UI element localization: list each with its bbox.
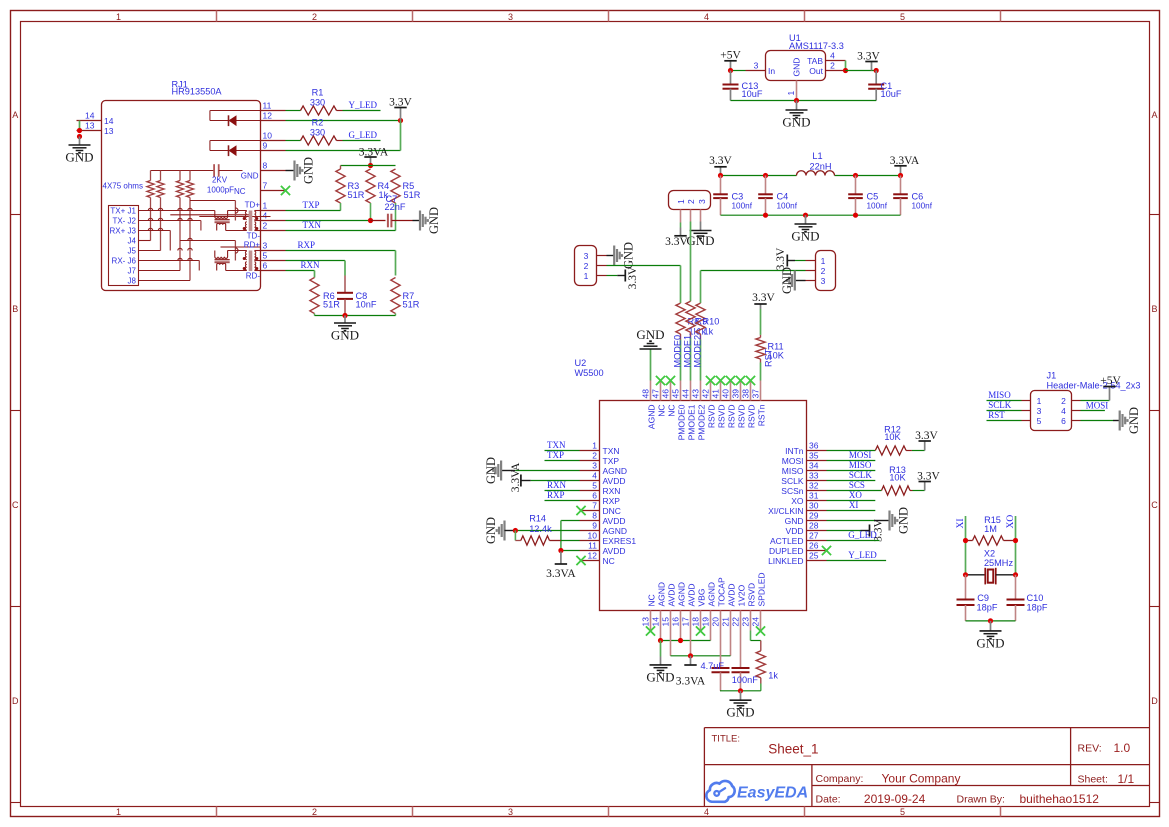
net label TXN — [303, 220, 322, 230]
svg-text:GND: GND — [65, 150, 93, 165]
ground GND below U1 — [782, 101, 810, 130]
net label TXP — [303, 200, 320, 210]
U2 pin 19 AGND — [701, 582, 717, 631]
ground GND at RJ1 pin 8 — [286, 157, 316, 184]
RJ1 pin 5 — [261, 251, 286, 261]
power flag +5V — [720, 50, 741, 71]
svg-text:J1: J1 — [1047, 371, 1057, 381]
svg-text:NC: NC — [234, 187, 246, 196]
svg-text:51R: 51R — [348, 190, 365, 200]
wire U2 pin11 AVDD — [561, 550, 580, 552]
no-connect X at U2 pin26 — [822, 546, 831, 555]
wire J8 row — [139, 280, 191, 282]
J1 pin digits — [1037, 396, 1067, 426]
svg-text:GND: GND — [976, 635, 1004, 650]
svg-text:3.3V: 3.3V — [665, 236, 688, 248]
power flag +5V at J1 — [1081, 375, 1122, 401]
title block Date row — [816, 792, 1100, 806]
svg-text:23: 23 — [741, 617, 751, 627]
svg-text:DUPLED: DUPLED — [769, 546, 803, 556]
net label RST at J1 — [988, 410, 1005, 420]
frame row letters — [12, 110, 1158, 706]
svg-text:VBG: VBG — [696, 589, 706, 607]
svg-text:2: 2 — [312, 807, 317, 817]
wire bottom avdd tie — [671, 655, 731, 657]
resistor R13 10K — [827, 465, 925, 495]
ground GND at U2 pin3 — [484, 457, 580, 484]
junction dot at R14 left — [513, 528, 518, 533]
svg-text:2: 2 — [592, 450, 597, 460]
svg-text:GND: GND — [427, 207, 441, 234]
svg-text:AGND: AGND — [603, 526, 628, 536]
U1 pin 3 In — [746, 60, 766, 70]
svg-text:MOSI: MOSI — [1086, 401, 1109, 411]
wire U2 pin19 down — [710, 631, 712, 641]
svg-text:4: 4 — [263, 211, 268, 221]
transformer T2 choke — [215, 250, 230, 270]
svg-text:35: 35 — [809, 450, 819, 460]
svg-text:MODE2: MODE2 — [693, 335, 703, 368]
U2 pin 16 AGND — [671, 582, 687, 631]
svg-text:NC: NC — [656, 405, 666, 417]
net label MISO at J1 — [988, 390, 1011, 400]
ground GND below C8 — [331, 316, 359, 343]
wire J5 row — [139, 250, 161, 252]
connector P2 1x3 top — [669, 191, 711, 210]
connector RJ1 HR913550A body — [102, 80, 261, 291]
wire U2 pin10 EXRES1 — [561, 540, 580, 542]
U2 pin 7 DNC — [580, 500, 621, 516]
svg-text:GND: GND — [780, 267, 794, 294]
svg-text:5: 5 — [263, 251, 268, 261]
svg-text:RXP: RXP — [603, 496, 621, 506]
junction dots at R15 — [963, 538, 1018, 543]
svg-text:GND: GND — [791, 229, 819, 244]
RJ1 inner jack box — [109, 206, 139, 286]
svg-text:2: 2 — [1061, 396, 1066, 406]
svg-text:C: C — [12, 500, 19, 510]
svg-text:SCLK: SCLK — [781, 476, 804, 486]
U2 pin 17 AVDD — [681, 584, 697, 631]
svg-text:3.3V: 3.3V — [627, 266, 639, 289]
svg-text:4: 4 — [704, 807, 709, 817]
RJ1 NC pin7 internal label — [234, 187, 246, 196]
svg-text:J4: J4 — [128, 237, 137, 246]
RJ1 TD+ label — [245, 201, 261, 210]
svg-text:40: 40 — [721, 389, 731, 399]
wire RXN to C8 — [286, 261, 346, 293]
svg-text:U2: U2 — [575, 358, 587, 368]
svg-text:TD+: TD+ — [245, 201, 261, 210]
svg-text:13: 13 — [641, 617, 651, 627]
resistor R12 10K — [827, 425, 925, 455]
svg-text:GND: GND — [646, 669, 674, 684]
svg-text:RST: RST — [988, 410, 1005, 420]
capacitor 2KV 1000pF — [151, 164, 243, 194]
junction dot at C1 — [874, 68, 879, 73]
svg-text:3: 3 — [697, 199, 707, 204]
RJ1 internal LED top — [210, 111, 261, 127]
power flag 3.3V at LED rail — [389, 96, 412, 120]
svg-text:100nf: 100nf — [777, 202, 798, 211]
svg-text:15: 15 — [661, 617, 671, 627]
U2 pin 31 XO — [791, 490, 826, 506]
svg-text:RD-: RD- — [246, 271, 261, 280]
no-connect X marks U2 top — [656, 376, 755, 385]
wire 3.3VA rail — [341, 165, 396, 167]
power flag 3.3VA at termination — [359, 146, 389, 165]
ground GND at J1 pin6 — [1081, 407, 1141, 434]
svg-text:31: 31 — [809, 490, 819, 500]
junction dots filter top — [718, 173, 903, 178]
capacitor C1 10uF — [868, 71, 902, 101]
svg-text:TOCAP: TOCAP — [716, 577, 726, 606]
RJ1 termination resistor column 3 — [176, 171, 183, 271]
svg-text:4X75 ohms: 4X75 ohms — [103, 182, 143, 191]
svg-text:XO: XO — [791, 496, 804, 506]
U2 pin 20 TOCAP — [711, 577, 727, 630]
wire MOSI at J1 — [1081, 410, 1105, 412]
svg-text:Sheet:: Sheet: — [1078, 774, 1108, 786]
svg-text:ACTLED: ACTLED — [770, 536, 804, 546]
capacitor C6 100nf — [893, 176, 933, 216]
svg-text:21: 21 — [721, 617, 731, 627]
svg-text:4.7uF: 4.7uF — [701, 661, 725, 671]
U2 pin 41 RSVD — [711, 381, 727, 429]
svg-text:J5: J5 — [128, 247, 137, 256]
U2 pin 35 MOSI — [782, 450, 827, 466]
junction dots at RJ1 gnd — [77, 128, 82, 139]
svg-text:MISO: MISO — [988, 390, 1011, 400]
svg-text:2: 2 — [584, 261, 589, 271]
svg-text:51R: 51R — [404, 190, 421, 200]
svg-text:22: 22 — [731, 617, 741, 627]
U2 pin 15 AVDD — [661, 584, 677, 631]
U2 pin 4 AVDD — [580, 470, 626, 486]
title block REV — [1078, 741, 1131, 755]
svg-text:J8: J8 — [128, 277, 137, 286]
svg-text:AGND: AGND — [603, 466, 628, 476]
RJ1 pin 11 — [261, 101, 286, 111]
svg-text:36: 36 — [809, 440, 819, 450]
svg-text:12: 12 — [588, 550, 598, 560]
transformer T1 isolation — [226, 211, 261, 232]
svg-text:C3: C3 — [732, 192, 744, 202]
svg-text:Header-Male-2.54_2x3: Header-Male-2.54_2x3 — [1047, 381, 1141, 391]
svg-text:B: B — [1151, 304, 1157, 314]
svg-text:GND: GND — [302, 157, 316, 184]
net label TXN at U2 — [547, 440, 566, 450]
svg-text:G_LED: G_LED — [349, 130, 378, 140]
wire MISO to J1 — [987, 400, 1022, 402]
U2 pin 8 AVDD — [580, 510, 626, 526]
U2 pin 34 MISO — [782, 460, 827, 476]
svg-text:10: 10 — [263, 131, 273, 141]
ground GND at U2 pin29 — [827, 507, 911, 534]
svg-text:3.3V: 3.3V — [857, 51, 880, 63]
svg-text:GND: GND — [484, 517, 498, 544]
net label RST at R11 — [764, 348, 774, 367]
svg-text:14: 14 — [104, 116, 114, 126]
svg-text:R1: R1 — [312, 88, 324, 98]
svg-text:1k: 1k — [704, 327, 714, 337]
U2 pin 27 ACTLED — [770, 530, 827, 546]
wire XO column — [1015, 516, 1017, 575]
RJ1 pin 6 — [261, 261, 286, 271]
svg-text:X2: X2 — [984, 548, 995, 558]
svg-text:EasyEDA: EasyEDA — [737, 785, 808, 802]
ic U2 W5500 body — [575, 358, 807, 611]
net label XO vertical — [1006, 515, 1016, 529]
svg-text:GND: GND — [792, 58, 802, 77]
svg-text:3: 3 — [508, 12, 513, 22]
svg-text:1: 1 — [584, 271, 589, 281]
U2 pin 44 PMODE1 — [681, 381, 697, 441]
wire Y_LED — [827, 560, 887, 562]
wire pin6 to R6 — [286, 271, 315, 278]
svg-text:AVDD: AVDD — [726, 584, 736, 607]
net label Y_LED — [349, 100, 378, 110]
net label RXN at U2 — [547, 480, 567, 490]
svg-text:RSVD: RSVD — [706, 405, 716, 429]
svg-text:18: 18 — [691, 617, 701, 627]
RJ1 termination resistor column 4 — [186, 171, 193, 281]
U1 pin 2 Out — [826, 60, 846, 70]
svg-text:RXN: RXN — [547, 480, 567, 490]
wire TAB to Out — [845, 61, 847, 71]
svg-text:24: 24 — [751, 617, 761, 627]
RJ1 pin 2 — [261, 221, 286, 231]
power flag 3.3V at R11 — [752, 292, 775, 309]
svg-text:2: 2 — [263, 221, 268, 231]
U2 pin 47 NC — [651, 381, 667, 417]
wire SCLK — [827, 480, 876, 482]
crystal X2 25MHz — [966, 548, 1016, 584]
power flag 3.3V at P1 pin1 — [607, 266, 640, 289]
RJ1 TD- label — [247, 231, 261, 240]
svg-text:45: 45 — [671, 389, 681, 399]
svg-text:10K: 10K — [884, 432, 901, 442]
U2 pin 38 RSVD — [741, 381, 757, 429]
svg-text:C5: C5 — [867, 192, 879, 202]
svg-text:Y_LED: Y_LED — [848, 550, 877, 560]
svg-text:9: 9 — [592, 520, 597, 530]
svg-text:GND: GND — [782, 115, 810, 130]
svg-text:3: 3 — [263, 241, 268, 251]
RJ1 pin 10 — [261, 131, 286, 141]
RJ1 termination resistor column 1 — [147, 171, 154, 241]
svg-text:RSVD: RSVD — [716, 405, 726, 429]
svg-text:48: 48 — [641, 389, 651, 399]
wire T1 center tap — [190, 201, 235, 248]
EasyEDA logo — [706, 781, 808, 802]
U2 pin 6 RXP — [580, 490, 621, 506]
svg-text:RXP: RXP — [547, 490, 565, 500]
svg-text:3.3V: 3.3V — [917, 470, 940, 482]
svg-text:SCLK: SCLK — [988, 400, 1012, 410]
U2 pin 32 SCSn — [781, 480, 826, 496]
capacitor C13 10uF — [723, 71, 763, 101]
svg-text:5: 5 — [900, 12, 905, 22]
wire TXP stub — [545, 460, 580, 462]
svg-text:AGND: AGND — [646, 405, 656, 430]
svg-text:5: 5 — [592, 480, 597, 490]
svg-text:C6: C6 — [912, 192, 924, 202]
svg-text:1: 1 — [786, 91, 796, 96]
wire J4 row — [139, 240, 151, 242]
svg-text:38: 38 — [741, 389, 751, 399]
svg-text:R10: R10 — [703, 317, 720, 327]
net label Y_LED at U2 — [848, 550, 877, 560]
net label SCS — [849, 480, 865, 490]
wire U2 pin9 AGND — [515, 530, 579, 532]
svg-text:10uF: 10uF — [881, 89, 902, 99]
no-connect X at U2 pin12 — [576, 556, 585, 565]
power flag 3.3V at R13 — [917, 470, 940, 490]
connector J1 Header-Male-2.54_2x3 — [1031, 371, 1141, 431]
junction dot at U1 out — [843, 68, 848, 73]
wire T2 center tap — [180, 241, 261, 261]
svg-text:MODE0: MODE0 — [673, 335, 683, 368]
svg-text:9: 9 — [263, 141, 268, 151]
svg-text:22nF: 22nF — [385, 202, 406, 212]
svg-text:18pF: 18pF — [1027, 603, 1048, 613]
svg-text:7: 7 — [592, 500, 597, 510]
power flag 3.3V at U2 pin28 — [827, 518, 885, 541]
wire J1 row — [139, 210, 215, 212]
svg-text:8: 8 — [263, 161, 268, 171]
svg-text:LINKLED: LINKLED — [768, 556, 803, 566]
net label G_LED — [349, 130, 378, 140]
net label RXP — [298, 240, 316, 250]
svg-text:AVDD: AVDD — [603, 476, 626, 486]
ground GND below caps — [726, 691, 754, 720]
U2 pin 13 NC — [641, 594, 657, 630]
svg-text:51R: 51R — [403, 300, 420, 310]
svg-text:14: 14 — [85, 110, 95, 120]
svg-text:3.3V: 3.3V — [709, 155, 732, 167]
wire filter top rail — [721, 175, 901, 177]
svg-text:1: 1 — [1037, 396, 1042, 406]
connector P3 1x3 right — [816, 251, 836, 291]
svg-text:2: 2 — [830, 60, 835, 70]
svg-text:10nF: 10nF — [356, 300, 377, 310]
svg-text:100nf: 100nf — [732, 202, 753, 211]
svg-text:2: 2 — [312, 12, 317, 22]
frame column numbers top — [116, 12, 905, 22]
RJ1 termination resistor column 2 — [157, 171, 164, 251]
wire TD center to C7 — [286, 220, 371, 222]
svg-text:25MHz: 25MHz — [984, 558, 1014, 568]
U2 pin 11 AVDD — [580, 540, 626, 556]
wire termination gnd rail — [315, 315, 396, 317]
svg-text:Your Company: Your Company — [882, 772, 961, 786]
U2 pin 39 RSVD — [731, 381, 747, 429]
svg-text:16: 16 — [671, 617, 681, 627]
svg-text:1: 1 — [592, 440, 597, 450]
net label MODE0 — [673, 335, 683, 368]
connector P1 1x3 left — [575, 246, 597, 286]
RJ1 pin 7 — [261, 181, 286, 191]
U2 pin 12 NC — [580, 550, 615, 566]
svg-text:C: C — [1151, 500, 1158, 510]
U2 pin 29 GND — [785, 510, 827, 526]
svg-text:27: 27 — [809, 530, 819, 540]
wire filter bottom rail — [721, 214, 901, 216]
svg-text:4: 4 — [1061, 406, 1066, 416]
svg-text:4: 4 — [704, 12, 709, 22]
wire TXN — [286, 230, 396, 232]
U1 pin 4 TAB — [826, 50, 846, 60]
svg-text:buithehao1512: buithehao1512 — [1020, 792, 1100, 806]
transformer T2 isolation — [226, 251, 261, 272]
svg-text:1: 1 — [116, 12, 121, 22]
title block frame — [704, 728, 1149, 807]
net label MODE1 — [683, 335, 693, 368]
capacitor C8 10nF — [337, 291, 377, 316]
svg-text:R2: R2 — [312, 118, 324, 128]
U2 pin 23 RSVD — [741, 583, 757, 631]
capacitor C5 100nf — [848, 176, 888, 216]
svg-text:RSVD: RSVD — [746, 583, 756, 607]
svg-text:30: 30 — [809, 500, 819, 510]
wire +5V to U1 In — [731, 70, 746, 72]
svg-text:NC: NC — [666, 405, 676, 417]
svg-text:AVDD: AVDD — [666, 584, 676, 607]
svg-text:2019-09-24: 2019-09-24 — [864, 792, 926, 806]
svg-text:NC: NC — [603, 556, 615, 566]
svg-text:1: 1 — [116, 807, 121, 817]
svg-text:3: 3 — [754, 60, 759, 70]
title block sheet name Sheet_1 — [768, 741, 818, 756]
frame column numbers bottom — [116, 807, 905, 817]
svg-text:C4: C4 — [777, 192, 789, 202]
U2 pin 43 PMODE2 — [691, 381, 707, 441]
U1 pin 1 GND — [786, 81, 797, 101]
wire U2 pin8 AVDD — [561, 521, 580, 551]
net label MOSI at J1 — [1086, 401, 1109, 411]
svg-text:1: 1 — [821, 256, 826, 266]
power flag 3.3V at P3 pin1 — [775, 247, 806, 270]
svg-text:29: 29 — [809, 510, 819, 520]
svg-text:2KV: 2KV — [212, 176, 228, 185]
svg-text:R14: R14 — [529, 514, 546, 524]
U2 pin 21 AVDD — [721, 584, 737, 631]
net label SCLK at J1 — [988, 400, 1012, 410]
RJ1 pin 12 — [261, 111, 286, 121]
junction dot at C8 gnd — [342, 313, 347, 318]
svg-text:330: 330 — [310, 97, 325, 107]
net label XO at U2 — [849, 490, 862, 500]
svg-text:GND: GND — [331, 328, 359, 343]
svg-text:43: 43 — [691, 389, 701, 399]
RJ1 pin 14 — [77, 110, 114, 126]
svg-text:47: 47 — [651, 389, 661, 399]
resistor R14 12.4k — [515, 514, 561, 546]
svg-text:3.3VA: 3.3VA — [510, 462, 522, 492]
svg-text:3.3VA: 3.3VA — [359, 146, 389, 158]
wire pin14 to pin13 gnd — [79, 121, 81, 131]
svg-text:28: 28 — [809, 520, 819, 530]
svg-text:MISO: MISO — [849, 460, 872, 470]
svg-text:100nF: 100nF — [732, 675, 758, 685]
U2 pin 24 SPDLED — [751, 572, 767, 630]
svg-text:SCS: SCS — [849, 480, 865, 490]
svg-text:3.3VA: 3.3VA — [546, 568, 576, 580]
U2 pin 10 EXRES1 — [580, 530, 637, 546]
U2 pin 26 DUPLED — [769, 540, 826, 556]
svg-text:4: 4 — [592, 470, 597, 480]
